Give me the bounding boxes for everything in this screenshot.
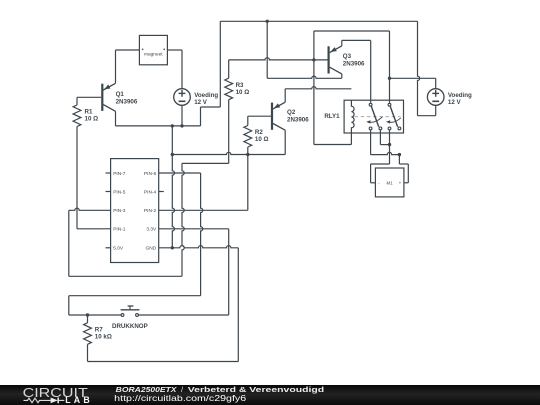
- svg-text:-: -: [378, 181, 380, 186]
- wire: [237, 248, 239, 362]
- svg-text:PIN-6: PIN-6: [144, 171, 157, 177]
- label Q1: [116, 91, 138, 106]
- wire: [181, 50, 183, 89]
- wire: [379, 130, 381, 145]
- svg-text:12 V: 12 V: [194, 99, 208, 106]
- wire: [284, 130, 286, 154]
- wire: [159, 228, 229, 230]
- node: [171, 124, 174, 127]
- wire: [314, 30, 390, 32]
- label V2: [448, 92, 472, 106]
- svg-text:10 Ω: 10 Ω: [255, 136, 269, 143]
- svg-text:PIN-1: PIN-1: [113, 227, 126, 233]
- svg-text:magneet: magneet: [144, 52, 163, 58]
- wire: [200, 107, 202, 126]
- resistor R7: [84, 323, 92, 345]
- svg-text:PIN-2: PIN-2: [144, 208, 157, 214]
- wire: [398, 155, 400, 164]
- wire: [87, 315, 89, 323]
- wire: [69, 314, 121, 316]
- wire: [116, 125, 201, 127]
- svg-text:R2: R2: [255, 129, 263, 136]
- label magneet: [142, 49, 165, 58]
- svg-text:GND: GND: [146, 246, 157, 252]
- label M1: [378, 180, 402, 185]
- svg-text:R7: R7: [95, 326, 103, 333]
- wire: [371, 163, 390, 165]
- wire: [228, 229, 230, 315]
- resistor R3: [225, 78, 233, 100]
- IC pin labels: [113, 171, 157, 252]
- relay arm 2: [390, 106, 397, 127]
- svg-text:http://circuitlab.com/c29gfy6: http://circuitlab.com/c29gfy6: [114, 393, 246, 403]
- label R1: [85, 109, 99, 123]
- wire: [159, 246, 239, 248]
- wire: [266, 21, 268, 78]
- wire: [69, 208, 111, 210]
- wire: [370, 164, 372, 183]
- wire: [115, 50, 117, 83]
- svg-text:Voeding: Voeding: [448, 92, 472, 99]
- relay contacts: [369, 103, 401, 129]
- wire: [314, 144, 352, 146]
- wire: [182, 162, 229, 164]
- pin stub: [106, 172, 111, 174]
- wire: [342, 39, 371, 41]
- wire: [371, 182, 376, 184]
- wire: [399, 163, 408, 165]
- label R3: [236, 82, 250, 96]
- wire: [418, 21, 420, 115]
- svg-text:2N3906: 2N3906: [343, 61, 365, 68]
- svg-text:PIN-7: PIN-7: [113, 171, 126, 177]
- svg-text:+: +: [399, 181, 402, 186]
- wire: [77, 96, 101, 98]
- wire: [350, 133, 352, 145]
- wire: [285, 87, 351, 89]
- wire: [404, 182, 408, 184]
- node: [171, 153, 174, 156]
- wire: [407, 164, 409, 183]
- wire: [341, 74, 343, 78]
- svg-text:R1: R1: [85, 109, 93, 116]
- node: [246, 153, 249, 156]
- wire: [159, 209, 248, 211]
- label R2: [255, 129, 269, 143]
- svg-text:10 Ω: 10 Ω: [236, 89, 250, 96]
- relay arrow 2: [386, 118, 401, 124]
- node: [86, 313, 89, 316]
- wire: [159, 172, 201, 174]
- svg-text:12 V: 12 V: [448, 99, 462, 106]
- svg-text:R3: R3: [236, 82, 244, 89]
- wire: [88, 361, 239, 363]
- wire: [248, 115, 271, 117]
- wire: [389, 130, 391, 164]
- node: [312, 58, 315, 61]
- wire: [172, 152, 285, 154]
- svg-text:Q2: Q2: [287, 109, 296, 116]
- wire: [390, 77, 436, 79]
- wire: [219, 21, 221, 107]
- wire: [228, 60, 230, 78]
- wire: [68, 210, 70, 276]
- svg-text:LAB: LAB: [65, 395, 93, 405]
- pushbutton DRUKKNOP: [121, 306, 140, 316]
- wire: [182, 163, 184, 276]
- svg-text:M1: M1: [387, 180, 394, 185]
- wire: [341, 40, 343, 46]
- wire: [435, 78, 437, 88]
- wire: [247, 116, 249, 125]
- wire: [228, 100, 230, 164]
- wire: [181, 105, 183, 126]
- label R7: [95, 326, 112, 340]
- wire: [69, 275, 182, 277]
- wire: [267, 76, 342, 78]
- pin stub: [106, 247, 111, 249]
- svg-text:PIN-3: PIN-3: [113, 208, 126, 214]
- wire: [389, 31, 391, 103]
- wire: [201, 106, 221, 108]
- transistor Q3: [329, 46, 342, 74]
- wire: [247, 147, 249, 155]
- svg-text:Voeding: Voeding: [194, 92, 218, 99]
- svg-text:10 kΩ: 10 kΩ: [95, 334, 112, 341]
- pin stub: [106, 191, 111, 193]
- wire: [76, 97, 78, 105]
- svg-text:Q1: Q1: [116, 91, 125, 98]
- wire: [284, 89, 286, 102]
- label V1: [194, 92, 218, 106]
- wire: [167, 49, 182, 51]
- wire: [201, 173, 203, 296]
- wire: [172, 126, 174, 248]
- wire: [370, 40, 372, 102]
- relay coil: [351, 100, 354, 133]
- svg-text:RLY1: RLY1: [324, 113, 340, 120]
- svg-text:2N3906: 2N3906: [287, 116, 309, 123]
- IC box: [111, 159, 159, 263]
- relay dashed link: [355, 116, 401, 118]
- relay arm 1: [371, 106, 378, 127]
- source V2: [427, 89, 444, 106]
- node: [180, 124, 183, 127]
- relay arrow 1: [366, 117, 382, 124]
- svg-text:10 Ω: 10 Ω: [85, 116, 99, 123]
- wire: [76, 127, 78, 229]
- wire: [229, 58, 328, 60]
- wire: [370, 130, 372, 155]
- label RLY1: [324, 113, 340, 120]
- transistor Q1: [102, 83, 115, 111]
- motor M1: [375, 168, 404, 197]
- node: [266, 20, 269, 23]
- svg-text:PIN-5: PIN-5: [113, 189, 126, 195]
- wire: [435, 105, 437, 115]
- wire: [77, 228, 111, 230]
- magneet box: [139, 35, 167, 64]
- node: [398, 153, 401, 156]
- wire: [313, 31, 315, 145]
- wire: [371, 152, 400, 154]
- svg-text:Q3: Q3: [343, 53, 352, 60]
- svg-text:DRUKKNOP: DRUKKNOP: [112, 323, 148, 330]
- resistor R2: [244, 126, 252, 148]
- pin stub: [159, 191, 164, 193]
- svg-text:3.3V: 3.3V: [146, 227, 157, 233]
- node: [171, 246, 174, 249]
- source V1: [174, 89, 191, 106]
- wire: [247, 155, 249, 211]
- wire: [116, 49, 140, 51]
- svg-text:PIN-4: PIN-4: [144, 189, 157, 195]
- node: [388, 77, 391, 80]
- relay RLY1 box: [344, 100, 403, 133]
- wire: [139, 314, 229, 316]
- wire: [87, 344, 89, 361]
- label Q3: [343, 53, 365, 67]
- wire: [115, 111, 117, 126]
- svg-text:2N3906: 2N3906: [116, 98, 138, 105]
- node: [388, 143, 391, 146]
- wire: [380, 144, 389, 146]
- label Q2: [287, 109, 309, 124]
- label DRUKKNOP: [112, 323, 148, 330]
- wire: [220, 20, 417, 22]
- wire: [68, 296, 70, 315]
- transistor Q2: [272, 102, 285, 130]
- wire: [69, 295, 201, 297]
- svg-text:5.0V: 5.0V: [113, 246, 124, 252]
- resistor R1: [73, 105, 81, 127]
- wire: [418, 115, 436, 117]
